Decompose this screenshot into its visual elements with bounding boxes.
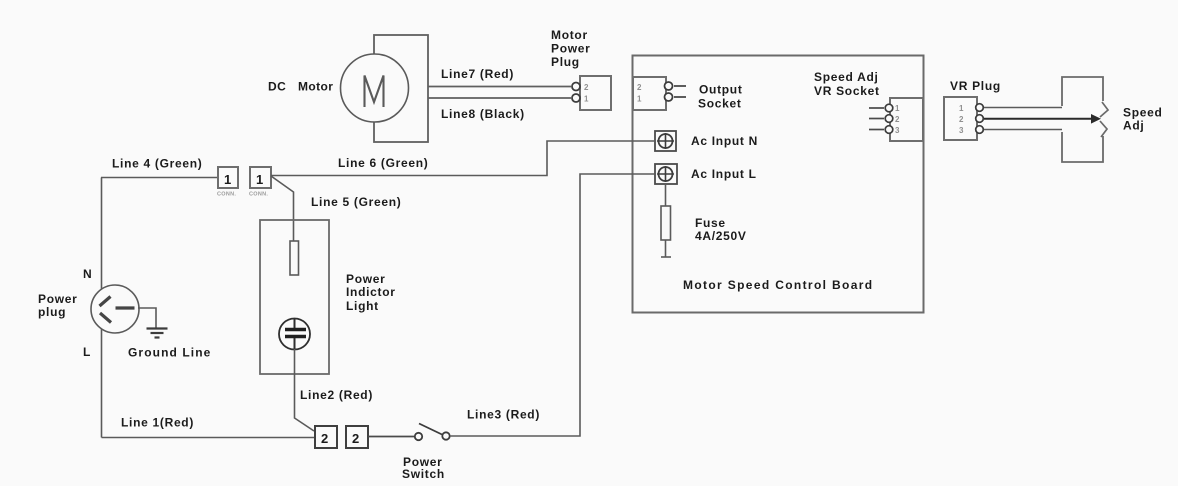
power switch SW1 bbox=[415, 424, 450, 441]
wire neutral riser bbox=[101, 178, 103, 290]
svg-text:1: 1 bbox=[584, 95, 589, 104]
svg-text:1: 1 bbox=[256, 172, 263, 187]
svg-text:Motor: Motor bbox=[298, 80, 333, 94]
svg-text:L: L bbox=[83, 345, 91, 359]
neon lamp bbox=[279, 319, 310, 350]
svg-text:Ground Line: Ground Line bbox=[128, 346, 211, 360]
svg-text:CONN.: CONN. bbox=[249, 192, 268, 198]
svg-text:2: 2 bbox=[321, 431, 328, 446]
svg-text:Line 4 (Green): Line 4 (Green) bbox=[112, 157, 202, 171]
svg-text:Power: Power bbox=[346, 272, 386, 286]
svg-text:N: N bbox=[83, 267, 92, 281]
connector 2a bbox=[315, 426, 337, 448]
svg-text:2: 2 bbox=[895, 115, 900, 124]
svg-text:Ac Input N: Ac Input N bbox=[691, 134, 758, 148]
svg-text:4A/250V: 4A/250V bbox=[695, 229, 747, 243]
label Speed Adj bbox=[1123, 106, 1163, 133]
wire Line1 bbox=[102, 437, 316, 439]
power plug bbox=[91, 285, 139, 333]
svg-text:Indictor: Indictor bbox=[346, 285, 396, 299]
wire VR pin1 bbox=[984, 107, 1062, 109]
svg-text:1: 1 bbox=[224, 172, 231, 187]
svg-text:Line3 (Red): Line3 (Red) bbox=[467, 408, 540, 422]
svg-text:2: 2 bbox=[959, 115, 964, 124]
svg-text:Line 1(Red): Line 1(Red) bbox=[121, 416, 194, 430]
DC motor body M bbox=[341, 54, 409, 122]
svg-text:Switch: Switch bbox=[402, 467, 445, 481]
wire Line4 bbox=[101, 177, 218, 179]
svg-text:Line8 (Black): Line8 (Black) bbox=[441, 107, 525, 121]
svg-text:CONN.: CONN. bbox=[217, 192, 236, 198]
svg-text:Power: Power bbox=[551, 42, 591, 56]
label Power plug bbox=[38, 292, 78, 319]
svg-text:Line 5 (Green): Line 5 (Green) bbox=[311, 195, 401, 209]
svg-text:Speed Adj: Speed Adj bbox=[814, 70, 879, 84]
svg-text:Power: Power bbox=[38, 292, 78, 306]
svg-text:2: 2 bbox=[637, 83, 642, 92]
svg-text:Light: Light bbox=[346, 299, 379, 313]
motor power plug bbox=[572, 76, 611, 110]
wire Line6 bbox=[271, 141, 655, 176]
terminal Ac Input N bbox=[655, 131, 676, 151]
VR plug bbox=[944, 97, 983, 140]
svg-text:Output: Output bbox=[699, 83, 743, 97]
power indicator light box bbox=[260, 220, 329, 374]
wire Line7 bbox=[428, 86, 571, 88]
svg-text:Motor Speed Control Board: Motor Speed Control Board bbox=[683, 278, 873, 292]
terminal Ac Input L bbox=[655, 164, 677, 184]
wire live riser bbox=[101, 329, 103, 438]
svg-text:2: 2 bbox=[584, 83, 589, 92]
svg-text:plug: plug bbox=[38, 305, 66, 319]
svg-text:Line7 (Red): Line7 (Red) bbox=[441, 67, 514, 81]
svg-text:1: 1 bbox=[637, 95, 642, 104]
svg-text:Fuse: Fuse bbox=[695, 216, 726, 230]
speed adj VR socket bbox=[869, 98, 923, 141]
svg-text:3: 3 bbox=[959, 126, 964, 135]
label Power Switch bbox=[402, 455, 445, 481]
svg-text:Adj: Adj bbox=[1123, 119, 1144, 133]
wire Line3 bbox=[450, 174, 655, 436]
connector CONN 1a bbox=[217, 167, 238, 198]
resistor R1 bbox=[290, 241, 299, 275]
label Fuse 4A/250V bbox=[695, 216, 747, 243]
svg-text:DC: DC bbox=[268, 80, 286, 94]
svg-text:VR Plug: VR Plug bbox=[950, 79, 1001, 93]
svg-text:1: 1 bbox=[959, 104, 964, 113]
label Speed Adj VR Socket bbox=[814, 70, 880, 98]
potentiometer Speed Adj bbox=[1062, 77, 1108, 162]
svg-text:1: 1 bbox=[895, 104, 900, 113]
ground line symbol bbox=[138, 308, 168, 338]
svg-text:Ac Input L: Ac Input L bbox=[691, 167, 757, 181]
wire Line8 bbox=[428, 97, 571, 99]
DC motor bracket bbox=[374, 35, 428, 142]
output socket bbox=[633, 77, 686, 110]
motor speed control board bbox=[633, 56, 924, 313]
label Motor Power Plug bbox=[551, 28, 591, 69]
svg-text:3: 3 bbox=[895, 126, 900, 135]
svg-text:Socket: Socket bbox=[698, 97, 742, 111]
wire VR pin3 bbox=[984, 129, 1062, 131]
label Output Socket bbox=[698, 83, 743, 111]
wire Line5 bbox=[271, 176, 294, 241]
svg-text:Speed: Speed bbox=[1123, 106, 1163, 120]
wire Line2 bbox=[295, 349, 315, 431]
svg-text:2: 2 bbox=[352, 431, 359, 446]
wiper wire with arrow bbox=[984, 114, 1101, 124]
svg-text:Line 6 (Green): Line 6 (Green) bbox=[338, 156, 428, 170]
fuse F1 bbox=[661, 184, 671, 257]
svg-text:Motor: Motor bbox=[551, 28, 588, 42]
label DC Motor bbox=[268, 80, 333, 94]
label Power Indictor Light bbox=[346, 272, 396, 313]
connector CONN 1b bbox=[249, 167, 271, 198]
svg-text:Plug: Plug bbox=[551, 55, 580, 69]
svg-text:VR Socket: VR Socket bbox=[814, 84, 880, 98]
svg-text:Line2 (Red): Line2 (Red) bbox=[300, 388, 373, 402]
wire to switch bbox=[368, 436, 414, 438]
connector 2b bbox=[346, 426, 368, 448]
